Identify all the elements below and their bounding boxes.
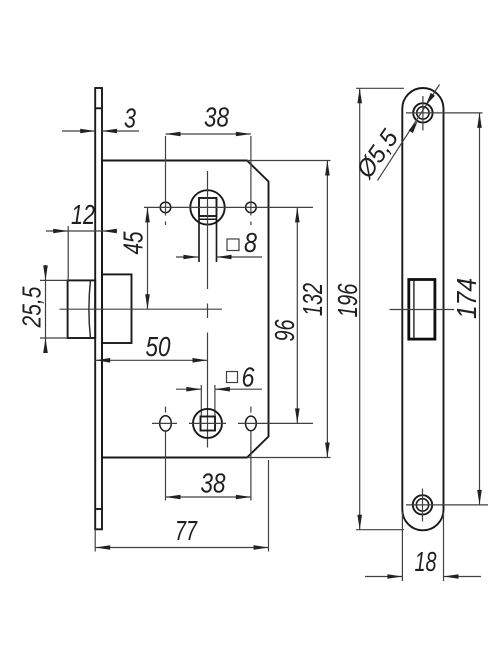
dimension 18 (plate width) (365, 576, 402, 578)
dimension 38 top (166, 133, 251, 135)
lock case outline (102, 161, 269, 458)
dimension 8 arrows (176, 256, 198, 258)
svg-text:77: 77 (175, 515, 198, 546)
bottom screw hole inner circle (416, 499, 428, 511)
dimension 25,5 (latch height) (45, 265, 47, 352)
bottom hub square hole (201, 417, 216, 431)
top right hole vertical centre/extension line (250, 136, 252, 216)
top screw hole vertical centre line (422, 96, 424, 131)
dimension 77 left extension (94, 529, 96, 551)
latch bolt bevel curve (89, 281, 90, 338)
bottom left oval hole (160, 416, 172, 431)
svg-text:45: 45 (118, 231, 149, 254)
svg-text:3: 3 (124, 103, 136, 134)
dimension 132 (326, 161, 328, 458)
bottom screw hole outer circle (413, 495, 432, 514)
bottom horizontal centre line (152, 422, 177, 424)
bottom right oval extension line down (250, 432, 252, 501)
top horizontal centre line (144, 206, 313, 208)
bottom screw hole vertical centre line (422, 489, 424, 522)
svg-text:38: 38 (201, 468, 226, 499)
bottom hub circle (193, 409, 222, 438)
svg-text:25,5: 25,5 (17, 286, 47, 328)
svg-text:38: 38 (204, 102, 229, 133)
case top edge extension line (247, 160, 331, 162)
diameter 5,5 arrowheads (409, 121, 418, 133)
latch horizontal centre line (60, 308, 223, 310)
dimension 196 (359, 88, 361, 529)
bottom right oval hole (246, 416, 257, 431)
faceplate (edge view) strip (95, 88, 102, 529)
latch body inside case (102, 274, 132, 343)
svg-text:8: 8 (244, 227, 257, 258)
top left hole vertical centre/extension line (165, 136, 167, 216)
svg-text:18: 18 (415, 546, 437, 577)
svg-text:196: 196 (332, 283, 363, 317)
dimension square 8 symbol (227, 239, 239, 251)
dimension 174 (479, 113, 481, 505)
dimension 77 right extension (268, 460, 270, 552)
faceplate upper rung (95, 107, 102, 109)
latch bolt (protruding) (68, 280, 96, 338)
top hub square hole (199, 198, 217, 216)
dimension 77 (95, 547, 268, 549)
dimension 6 extension lines (200, 385, 202, 417)
dimension 3 (faceplate thickness) (62, 130, 95, 132)
svg-text:132: 132 (297, 283, 328, 316)
latch visible through opening (413, 281, 415, 339)
latch opening in plate (409, 280, 435, 340)
svg-text:12: 12 (71, 199, 95, 230)
dimension 12 (latch projection) (46, 230, 117, 232)
top hub circle (190, 190, 224, 224)
case bottom edge extension line (247, 457, 331, 459)
strike plate outline (stadium shape) (402, 88, 443, 530)
top screw hole outer circle (413, 103, 432, 122)
svg-text:174: 174 (451, 278, 482, 319)
svg-text:50: 50 (146, 331, 171, 362)
diameter 5,5 leader line (378, 85, 440, 181)
bottom left oval extension line down (165, 432, 167, 501)
top hub square left side extension (198, 216, 200, 262)
dimension 38 bottom (166, 496, 251, 498)
dimension square 6 symbol (227, 372, 238, 383)
hub vertical centre line (207, 171, 209, 289)
bottom screw hole horizontal centre line / 174 extension (406, 504, 488, 506)
dimension 45 (147, 207, 149, 309)
top right hole (246, 202, 257, 213)
top screw hole inner circle (417, 107, 429, 119)
bottom right oval centre dash above (250, 407, 252, 413)
dimension 18 extension lines (401, 512, 403, 581)
latch opening horizontal centre line (390, 309, 455, 311)
svg-text:6: 6 (242, 362, 255, 393)
dimension 50 (95, 359, 207, 361)
dimension 6 arrows (176, 388, 201, 390)
top left hole (160, 202, 171, 213)
bottom left oval centre dash above (165, 407, 167, 413)
top screw hole horizontal centre line / 174 extension (406, 112, 483, 114)
dimension 96 (296, 207, 298, 423)
top hub square second bottom line (199, 218, 217, 220)
svg-text:96: 96 (269, 319, 300, 341)
top hub square right side extension (216, 216, 218, 262)
faceplate lower rung (95, 508, 102, 510)
